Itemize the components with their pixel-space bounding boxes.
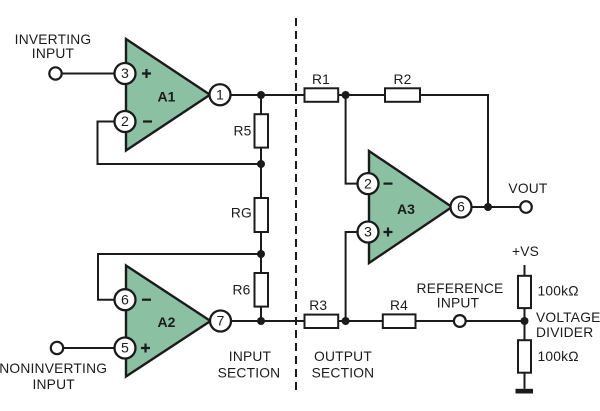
pin 2 of A1 xyxy=(115,111,136,132)
wire R1 to R2 xyxy=(338,94,385,96)
svg-text:SECTION: SECTION xyxy=(218,366,281,381)
resistor R2 xyxy=(385,88,420,102)
wire upper 100k resistor to divider node xyxy=(524,308,526,340)
wire R6 to bottom rail xyxy=(260,307,262,321)
junction node A1 output / bus xyxy=(257,91,265,99)
wire reference input to voltage divider xyxy=(466,320,525,322)
junction node A2 output / bus xyxy=(257,317,265,325)
wire lower 100k resistor to ground xyxy=(524,373,526,389)
svg-text:2: 2 xyxy=(121,114,129,130)
wire R2 to VOUT corner xyxy=(420,95,488,207)
svg-text:R5: R5 xyxy=(233,124,251,139)
pin 2 of A3 xyxy=(358,173,379,194)
svg-text:+VS: +VS xyxy=(512,244,539,259)
wire A3 pin 2 to R1 node xyxy=(346,95,358,184)
svg-text:100kΩ: 100kΩ xyxy=(538,349,579,364)
wire A2 output to R3 xyxy=(231,320,305,322)
resistor R1 xyxy=(305,88,339,102)
svg-text:INVERTING: INVERTING xyxy=(15,32,92,47)
resistor 100k upper xyxy=(518,276,531,308)
svg-text:R3: R3 xyxy=(309,298,327,313)
pin 6 of A2 xyxy=(115,289,136,310)
wire vertical resistor bus top xyxy=(260,95,262,114)
pin 3 of A3 xyxy=(358,222,379,243)
resistor RG xyxy=(255,198,269,232)
svg-text:R6: R6 xyxy=(232,283,250,298)
op-amp A3 xyxy=(369,151,452,263)
junction node R3 / A3 pin3 xyxy=(342,317,350,325)
ground xyxy=(516,389,534,394)
svg-text:R4: R4 xyxy=(390,298,408,313)
svg-text:OUTPUT: OUTPUT xyxy=(314,349,372,364)
svg-text:R1: R1 xyxy=(312,72,330,87)
svg-text:RG: RG xyxy=(231,206,252,221)
svg-text:100kΩ: 100kΩ xyxy=(538,283,579,298)
resistor R4 xyxy=(383,314,416,328)
junction node voltage divider xyxy=(521,317,529,325)
svg-text:VOUT: VOUT xyxy=(508,181,547,196)
wire A3 pin 3 to R3 node xyxy=(346,232,358,321)
svg-text:1: 1 xyxy=(216,88,224,104)
resistor 100k lower xyxy=(518,340,531,373)
svg-text:3: 3 xyxy=(364,225,372,241)
wire A1 feedback pin2 to RG bus node xyxy=(98,122,262,165)
wire R3 to R4 xyxy=(338,320,383,322)
svg-text:A2: A2 xyxy=(158,314,176,330)
svg-text:REFERENCE: REFERENCE xyxy=(417,281,504,296)
svg-text:NONINVERTING: NONINVERTING xyxy=(0,361,107,376)
label INVERTING INPUT xyxy=(15,32,92,61)
junction node R1 / A3 pin2 xyxy=(342,91,350,99)
svg-text:5: 5 xyxy=(121,341,129,357)
resistor R6 xyxy=(255,273,269,307)
svg-text:INPUT: INPUT xyxy=(32,377,75,392)
junction node A2 feedback / bus xyxy=(257,250,265,258)
svg-text:6: 6 xyxy=(121,292,129,308)
svg-text:R2: R2 xyxy=(393,72,411,87)
resistor R5 xyxy=(255,114,269,147)
pin 6 of A3 xyxy=(451,197,472,218)
junction node VOUT xyxy=(484,203,492,211)
terminal VOUT xyxy=(520,201,532,213)
wire A3 pin 6 output to VOUT xyxy=(472,206,521,208)
svg-text:INPUT: INPUT xyxy=(229,349,272,364)
svg-text:DIVIDER: DIVIDER xyxy=(536,325,593,340)
wire A2 feedback pin6 to RG bus node xyxy=(98,254,261,300)
pin 5 of A2 xyxy=(115,338,136,359)
label OUTPUT SECTION xyxy=(312,349,375,381)
svg-text:A1: A1 xyxy=(158,89,176,105)
pin 3 of A1 xyxy=(115,63,136,84)
wire R5 to RG xyxy=(260,148,262,198)
svg-text:SECTION: SECTION xyxy=(312,366,375,381)
wire +VS to upper 100k resistor xyxy=(524,265,526,276)
svg-text:3: 3 xyxy=(121,66,129,82)
wire A1 output to R1 xyxy=(231,94,305,96)
resistor R3 xyxy=(305,315,339,328)
terminal reference input xyxy=(454,315,466,327)
op-amp A2 xyxy=(126,266,211,377)
pin 7 of A2 xyxy=(210,311,231,332)
terminal inverting input xyxy=(49,67,61,79)
wire R4 to reference input terminal xyxy=(416,320,454,322)
label REFERENCE INPUT xyxy=(417,281,504,311)
svg-text:A3: A3 xyxy=(397,201,415,217)
section divider dashed line xyxy=(295,18,297,390)
svg-text:6: 6 xyxy=(457,200,465,216)
label VOLTAGE DIVIDER xyxy=(536,310,600,340)
pin 1 of A1 xyxy=(210,84,231,105)
terminal noninverting input xyxy=(51,342,63,354)
wire inverting input to pin 3 of A1 xyxy=(62,73,115,75)
svg-text:7: 7 xyxy=(217,314,225,330)
wire noninverting input to pin 5 of A2 xyxy=(63,347,114,349)
svg-text:VOLTAGE: VOLTAGE xyxy=(536,310,600,325)
svg-text:INPUT: INPUT xyxy=(437,295,480,310)
svg-text:2: 2 xyxy=(364,176,372,192)
op-amp A1 xyxy=(126,39,210,151)
wire RG to R6 xyxy=(260,232,262,273)
label INPUT SECTION xyxy=(218,349,281,381)
svg-text:INPUT: INPUT xyxy=(32,46,75,61)
junction node A1 feedback / bus xyxy=(257,160,265,168)
label NONINVERTING INPUT xyxy=(0,361,107,392)
